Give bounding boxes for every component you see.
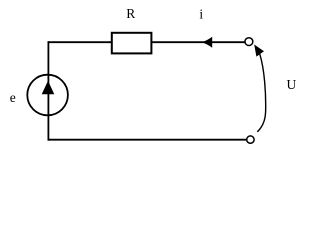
svg-text:R: R <box>126 6 135 21</box>
current arrow i on top wire <box>201 37 212 48</box>
svg-text:i: i <box>199 6 203 21</box>
wire bottom horizontal <box>48 139 247 141</box>
svg-text:e: e <box>10 90 16 105</box>
wire top-left horizontal <box>48 41 113 43</box>
wire left vertical <box>47 41 49 140</box>
svg-text:U: U <box>287 77 297 92</box>
wire top-right horizontal <box>151 41 245 43</box>
terminal node bottom-right <box>247 136 254 143</box>
voltage arc U arrowhead <box>254 45 264 57</box>
source e arrow <box>42 81 55 94</box>
voltage arc U <box>257 54 265 132</box>
terminal node top-right <box>245 38 253 46</box>
source e circle <box>27 75 68 116</box>
resistor R1 body <box>112 33 152 54</box>
